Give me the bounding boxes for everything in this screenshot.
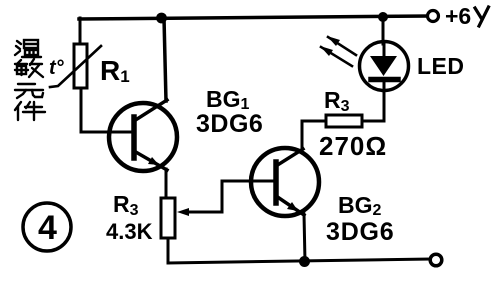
wire BG2 collector to R3 270 <box>302 121 327 148</box>
wire R1 top lead <box>79 18 82 44</box>
transistor Q2 BG2 <box>251 148 319 216</box>
char 元 <box>15 84 43 98</box>
node junction bottom (BG2 emitter) <box>299 256 310 267</box>
wire R3 270 right lead to LED cathode <box>362 80 384 121</box>
label t° <box>49 57 65 79</box>
wire BG1 emitter to potentiometer <box>165 169 168 199</box>
char 敏 <box>15 59 43 77</box>
potentiometer R3 4.3K body <box>161 198 175 238</box>
label R3 (potentiometer) <box>113 191 139 219</box>
wire wiper to BG2 base <box>187 181 276 212</box>
figure number 4 <box>23 203 71 251</box>
thermistor diagonal stroke <box>50 46 101 87</box>
node junction top-left (BG1 collector tap) <box>156 13 167 24</box>
label 4.3K <box>106 219 153 244</box>
LED light emission arrows <box>320 36 356 66</box>
wire top supply rail <box>79 16 428 19</box>
wire BG2 emitter to bottom rail <box>304 214 305 262</box>
wire bottom rail <box>168 259 430 263</box>
label 270Ω <box>319 131 387 161</box>
potentiometer wiper arrow <box>177 208 189 216</box>
node junction top-right (LED tap) <box>378 12 388 22</box>
label LED <box>417 53 465 79</box>
wire BG1 collector riser <box>164 18 166 101</box>
svg-text:4.3K: 4.3K <box>106 219 153 244</box>
terminal bottom right <box>430 254 442 266</box>
svg-text:4: 4 <box>38 209 57 247</box>
label R3 (270) <box>324 87 350 115</box>
LED D1 <box>360 42 409 91</box>
svg-text:BG2: BG2 <box>338 192 382 219</box>
svg-text:BG1: BG1 <box>206 86 250 113</box>
svg-text:+6: +6 <box>445 3 471 29</box>
svg-text:R3: R3 <box>113 191 139 219</box>
svg-text:R3: R3 <box>324 87 350 115</box>
resistor R3 270 body <box>326 115 362 127</box>
resistor R1 thermistor body <box>74 44 87 88</box>
char 件 <box>15 102 45 120</box>
label BG1 <box>206 86 250 113</box>
label 温敏元件 (temperature sensing element, drawn strokes) <box>15 40 45 120</box>
svg-text:270Ω: 270Ω <box>319 131 387 161</box>
label 3DG6 (BG2) <box>326 218 395 246</box>
svg-text:t°: t° <box>49 57 65 79</box>
label +6V <box>445 3 471 29</box>
label BG2 <box>338 192 382 219</box>
svg-text:3DG6: 3DG6 <box>196 110 263 138</box>
svg-text:3DG6: 3DG6 <box>326 218 395 246</box>
char 温 <box>15 40 41 57</box>
wire R1 bottom to BG1 base <box>81 88 134 132</box>
transistor Q1 BG1 <box>109 100 177 171</box>
label R1 <box>100 55 130 86</box>
svg-text:LED: LED <box>417 53 465 79</box>
wire potentiometer bottom <box>167 238 170 263</box>
label 3DG6 (BG1) <box>196 110 263 138</box>
svg-text:R1: R1 <box>100 55 130 86</box>
wire LED anode lead <box>382 18 385 44</box>
terminal +6V <box>428 11 439 22</box>
